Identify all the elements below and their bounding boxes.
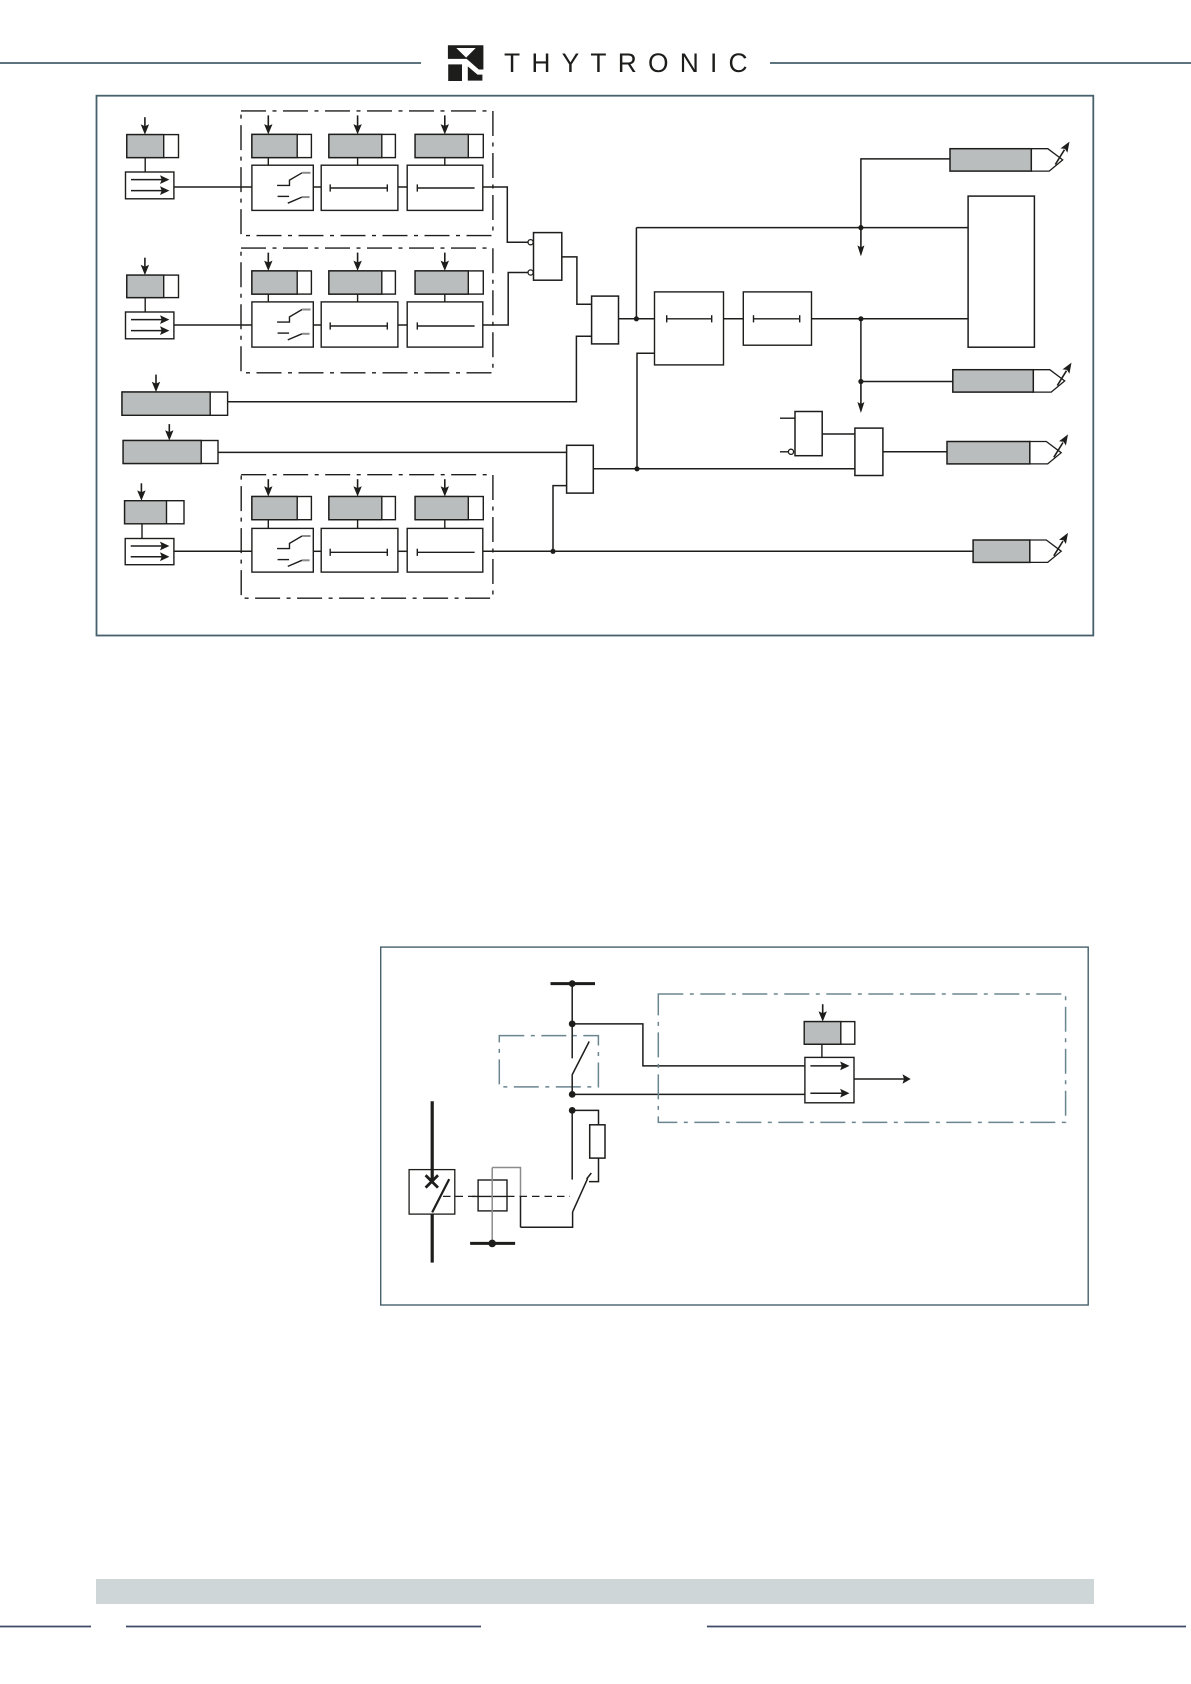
group 1 block 2 (definite time) [321,165,398,210]
functional diagram frame [97,96,1094,636]
auxiliary switch contact [572,1024,589,1095]
row3 stem [141,524,143,539]
ground [470,1242,515,1245]
NOT gate U4 [780,412,822,456]
group 2 wire block2-block3 [398,324,407,326]
group 2 block 3 (timer) [407,302,483,347]
row3 measuring element Io> [125,539,174,565]
group 2 stem 3 [444,294,446,302]
group 3 boundary [241,475,493,599]
delay box T1 [655,292,724,365]
group 1 wire block2-block3 [398,186,407,188]
auxiliary switch boundary (dash-dot) [499,1036,598,1087]
node U2 out [634,316,639,321]
footer bar [96,1579,1094,1604]
row1 wire to group 1 [174,186,252,188]
horizontal net to signal box [636,227,968,229]
group 2 setting 1 [252,271,312,294]
group 1 block 3 (timer) [407,165,483,210]
U4 output wire [822,433,855,435]
bar1 wire to gate U2 [228,336,592,402]
output flag 4 (alarm) [973,533,1068,563]
group 3 stem 1 [267,520,269,529]
control circuit frame [381,947,1088,1305]
footer rule right [707,1626,1186,1628]
group 1 stem 1 [267,158,269,166]
blocking setting bar 1 [122,392,228,415]
arrow into blocking setting bar 2 [165,424,173,440]
group 2 stem 2 [357,294,359,302]
wire down to output flag 2 [861,319,953,382]
group 1 stem 2 [357,158,359,166]
group 1 wire block1-block2 [313,186,321,188]
arrow into group 2 setting 1 [264,253,272,271]
group 1 boundary [241,111,493,236]
arrow into group 3 setting 3 [441,479,449,496]
resistor R1 [590,1125,605,1158]
group 3 stem 3 [444,520,446,529]
continuation arrow down 2 [857,382,864,414]
relay output arrow [854,1078,906,1080]
bar2 wire to gate U3 [218,451,567,453]
group 3 setting 1 [252,497,312,520]
mechanical linkage dashed line [443,1195,478,1197]
node aux supply tap [569,1021,576,1028]
group 3 block 1 (start/switch) [252,528,313,572]
current transformer [472,1180,507,1211]
group1 output wire [483,187,529,242]
group 3 setting 3 [415,497,483,520]
relay setting box [804,1022,855,1045]
relay stem [821,1044,823,1057]
wire to relay input 1 [572,1024,805,1066]
node U3 out junction [634,466,639,471]
node resistor branch tap [569,1107,576,1114]
arrow into relay setting box [819,1004,827,1021]
OR gate U2 [592,296,619,344]
wire up to output flag 1 [861,159,950,228]
row3 wire to group 3 [174,550,252,552]
group 3 stem 2 [357,520,359,529]
arrow into group 2 setting 3 [441,253,449,271]
arrow into group 1 setting 2 [353,115,361,134]
group3 output wire [483,550,973,552]
group 3 block 3 (timer) [407,528,483,572]
group 2 block 1 (start/switch) [252,302,313,347]
node relay input 2 tap [569,1091,576,1098]
AND gate U3 [567,445,594,493]
group 2 boundary [241,248,493,373]
footer rule far left [0,1626,91,1628]
continuation arrow down 1 [857,228,864,257]
wire to resistor [572,1110,598,1124]
output flag 2 (start) [953,363,1072,393]
U2 output wire [619,318,655,320]
header rule left [0,62,421,64]
wire to relay input 2 [572,1093,805,1095]
group 1 stem 3 [444,158,446,166]
arrow into group 1 setting 3 [441,115,449,134]
group 3 setting 2 [329,497,396,520]
group2 output wire [483,273,529,326]
group 2 setting 3 [415,271,483,294]
group 2 block 2 (definite time) [321,302,398,347]
CT ground wire [491,1168,493,1244]
node at trip branch top [858,225,863,230]
trip contact blade [573,1173,592,1212]
U5 output wire [883,451,947,453]
resistor bottom lead [589,1158,599,1182]
relay measuring block [805,1057,854,1102]
group 3 wire block2-block3 [398,550,407,552]
circuit breaker [409,1101,455,1262]
node bus tap [569,980,576,987]
group 1 setting 2 [329,134,396,157]
wire T2 to signal box [812,318,969,320]
arrow into blocking setting bar 1 [152,375,160,392]
node output 2 branch [858,379,863,384]
fixed contact lead [571,1110,573,1179]
arrow into row3 input setting box [137,483,145,500]
row1 stem [144,158,146,172]
AND gate U5 [855,428,883,475]
row2 measuring element I>> [126,312,174,339]
group 2 wire block1-block2 [313,324,321,326]
row2 wire to group 2 [174,324,252,326]
busbar [551,982,596,985]
svg-text:THYTRONIC: THYTRONIC [504,48,759,78]
blocking wire to T1 lower input [637,353,655,469]
group 1 setting 1 [252,134,312,157]
output flag 1 (trip) [950,142,1070,172]
row1 measuring element I> [126,172,174,199]
arrow into row1 input setting box [141,117,149,134]
relay logic boundary (dash-dot) [658,994,1065,1122]
wire bus down [571,984,573,1024]
arrow into group 3 setting 1 [264,479,272,496]
header rule right [770,62,1191,64]
Thytronic logo mark [448,45,484,81]
U3 second input wire [553,486,567,552]
row2 input setting box [127,275,179,298]
vertical branch up from U2 output [635,228,637,321]
group 1 setting 3 [415,134,483,157]
output flag 3 (block) [947,434,1068,464]
signal/LED box [968,196,1034,347]
NOR gate U1 [528,233,562,281]
group 3 block 2 (definite time) [321,528,398,572]
CT secondary wire [492,1168,520,1197]
node trip branch 2 [858,316,863,321]
arrow into group 3 setting 2 [353,479,361,496]
group 3 wire block1-block2 [313,550,321,552]
U1 output wire [562,257,592,304]
group 2 stem 1 [267,294,269,302]
wire T1-T2 [724,318,744,320]
footer rule left [126,1626,481,1628]
row1 input setting box [127,135,179,158]
arrow into group 1 setting 1 [264,115,272,134]
group 2 setting 2 [329,271,396,294]
row2 stem [144,298,146,312]
node ground tap [488,1240,496,1248]
blocking setting bar 2 [123,441,218,464]
delay box T2 [743,292,811,345]
CT secondary wire lower [520,1196,522,1227]
wire blade to coil loop [521,1212,573,1227]
net to U5 second input [593,468,855,470]
arrow into row2 input setting box [141,258,149,275]
node row3 branch [550,549,555,554]
row3 input setting box [125,501,184,524]
group 1 block 1 (start/switch) [252,165,313,210]
arrow into group 2 setting 2 [353,253,361,271]
